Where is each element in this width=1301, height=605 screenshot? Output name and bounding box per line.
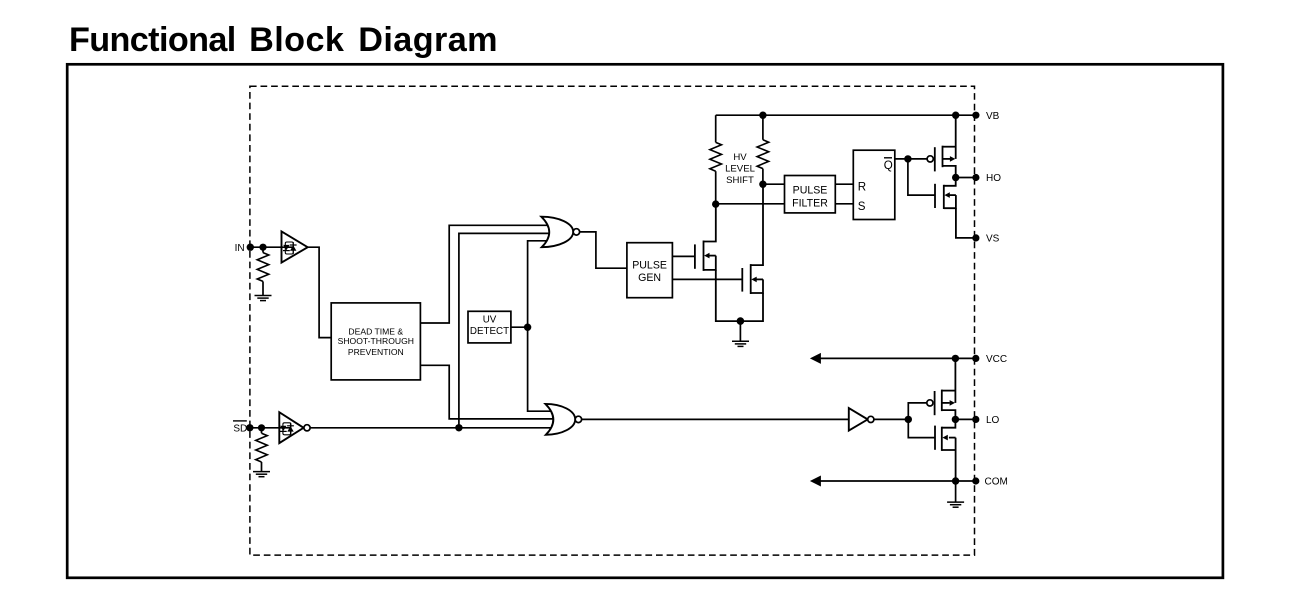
svg-text:SHIFT: SHIFT [726,175,754,186]
G2 output bubble [575,416,581,422]
pin IN dot [247,244,254,251]
wire R node to pulse filter [763,183,785,185]
svg-text:PULSE: PULSE [793,185,828,197]
net VB rail [716,114,976,116]
wire G1 output to pulse gen [580,232,627,268]
wire to P2 gate [908,403,927,420]
svg-text:SHOOT-THROUGH: SHOOT-THROUGH [338,336,414,346]
wire UV net to NOR G1 bottom input [528,241,551,327]
net COM (arrow to the left) [819,480,976,482]
wire IN pin to buffer [250,246,293,248]
wire COM to ground [955,481,957,502]
svg-text:VB: VB [986,111,1000,122]
svg-text:S: S [858,200,866,213]
resistor R-LS2 (HV level shift) [762,115,764,140]
svg-text:DETECT: DETECT [470,326,509,337]
svg-text:HO: HO [986,173,1001,184]
node UV net junction [524,324,531,331]
label HV LEVEL SHIFT [725,152,756,186]
wire SD net up to NOR G1 middle input [459,233,552,427]
input buffer U-IN (with clamp diodes) [282,231,308,262]
block: pulse gen [627,243,673,298]
svg-text:FILTER: FILTER [792,198,828,210]
wire pulse filter to latch S [835,203,853,205]
wire pulse filter to latch R [835,183,853,185]
pin VCC [972,355,979,362]
wire latch output [895,158,927,160]
svg-text:Functional Block Diagram: Functional Block Diagram [69,21,498,59]
svg-text:UV: UV [483,315,497,326]
ground (level shift) [732,341,749,346]
transistor N1 (HO pull-down NMOS) [935,178,976,238]
wire to ground [739,321,741,341]
node SD junction [258,424,265,431]
svg-text:VCC: VCC [986,354,1007,365]
transistor N2 (LO pull-down NMOS) [935,419,956,481]
transistor P2 (LO pull-up PMOS) [927,400,933,406]
wire G2 output to inverter U3 [582,418,849,420]
inverter U3 (LO driver input) [849,408,868,431]
svg-text:SD: SD [233,424,247,435]
svg-text:GEN: GEN [638,272,661,284]
ground (COM) [947,502,964,507]
wire UV net to NOR G2 top input [528,327,555,411]
svg-text:COM: COM [985,477,1008,488]
input buffer U-SD (inverting, with clamp diodes) [279,412,303,443]
latch (RS flip-flop) [853,150,895,219]
node R junction [759,181,766,188]
wire SD net (buffer output to NOR G2) [310,427,553,429]
transistor M2 (level shift NMOS) [740,184,763,321]
svg-text:PREVENTION: PREVENTION [348,347,404,357]
node LO [952,416,959,423]
resistor R-SD [261,428,263,433]
block: pulse filter [785,176,836,213]
wire pulse gen to M1 gate [672,255,695,257]
ground (IN pull-down) [255,296,272,301]
resistor R-LS1 (HV level shift) [715,115,717,142]
NOR gate G1 (high side) [541,217,573,248]
node SD-net junction [455,424,462,431]
net VCC (arrow to the left) [819,357,976,359]
svg-text:R: R [858,181,866,194]
wire dead-time lower output to NOR G2 middle input [420,365,555,419]
G1 output bubble [573,229,579,235]
node LO gate junction [905,416,912,423]
U-SD output bubble [304,425,310,431]
svg-text:IN: IN [235,243,245,254]
block: dead time & shoot-through prevention [331,303,420,380]
NOR gate G2 (low side) [545,404,575,435]
svg-text:DEAD TIME &: DEAD TIME & [348,326,403,336]
pin COM [972,477,979,484]
transistor P1 (HO pull-up PMOS) [927,156,933,162]
wire latch output to N1 gate [908,159,935,195]
pin VS [972,234,979,241]
node latch output junction [904,155,911,162]
node level-shift source junction [737,317,745,325]
pin VB [972,112,979,119]
svg-text:PULSE: PULSE [632,259,667,271]
pin HO [972,174,979,181]
ground (SD pull-down) [253,472,270,477]
pin LO [972,416,979,423]
wire to N2 gate [908,419,935,437]
wire SD pin to buffer [250,427,290,429]
svg-text:LEVEL: LEVEL [725,163,756,174]
pin SD dot [246,424,253,431]
transistor M1 (level shift NMOS) [695,204,741,321]
wire U3 output [874,418,908,420]
wire pulse gen to M2 gate [672,278,742,280]
wire UV detect output [511,326,528,328]
IC boundary (dashed) [250,86,975,555]
wire S node to pulse filter [716,203,785,205]
node S junction [712,200,719,207]
node HO [952,174,959,181]
block: UV detect [468,311,511,343]
node IN junction [259,244,266,251]
svg-text:HV: HV [733,152,747,163]
svg-text:LO: LO [986,415,1000,426]
wire dead-time upper output to NOR G1 top input [420,225,550,323]
resistor R-IN [262,247,264,252]
svg-text:VS: VS [986,234,1000,245]
svg-text:Q: Q [884,159,893,172]
wire U-IN output to dead-time block [308,247,332,337]
outer frame [67,64,1223,578]
